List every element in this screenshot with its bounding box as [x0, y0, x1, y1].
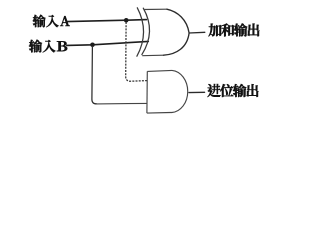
and-gate U2 : bottom edge (dotted)	[147, 112, 171, 115]
wire input A	[67, 20, 147, 22]
and-gate U2 : top edge (dotted)	[147, 70, 172, 71]
junction node B	[90, 43, 95, 48]
junction node A	[124, 18, 129, 23]
output label 加和输出 (sum output)	[209, 23, 260, 36]
wire B branch vertical	[92, 47, 97, 104]
and-gate U2 (carry) : left edge (dotted)	[146, 71, 148, 113]
output label 进位输出 (carry output)	[207, 84, 258, 97]
xor-gate U1 (sum) : extra input arc	[137, 8, 144, 56]
half-adder logic diagram	[0, 0, 291, 132]
xor-gate U1 : body back arc	[142, 8, 150, 54]
xor-gate U1 : body top edge (dotted)	[144, 8, 167, 10]
input label 输入A	[33, 15, 70, 27]
wire B branch horizontal to AND gate (dotted)	[97, 102, 147, 105]
input label 输入B	[29, 40, 67, 53]
xor-gate U1 : right curves to tip	[164, 9, 190, 55]
wire input B	[67, 41, 149, 45]
and-gate U2 : right semicircle (dotted)	[171, 70, 188, 112]
wire A branch to AND gate (dotted)	[126, 22, 147, 81]
output wire carry	[189, 91, 205, 93]
xor-gate U1 : body bottom edge (dotted)	[142, 54, 163, 57]
output wire sum	[189, 31, 205, 34]
